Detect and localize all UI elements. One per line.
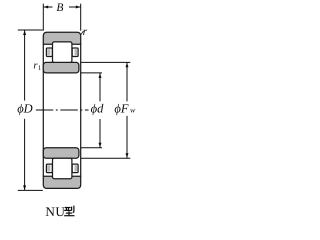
outer ring lower section [43,176,80,188]
phiD extension line bottom [18,189,43,191]
svg-text:B: B [56,2,63,14]
wire: left side-face line of bearing [42,44,44,177]
svg-text:r: r [83,26,88,38]
B dimension extension line right [80,4,82,31]
phid dimension line upper segment with up arrow [99,73,101,101]
roller upper [53,42,72,63]
phiFw extension line top [81,61,131,63]
inner ring lower section [43,148,79,159]
svg-text:NU: NU [45,204,65,219]
svg-text:1: 1 [38,64,42,72]
axis center line (dash-dot) [36,109,89,111]
B dimension extension line left [42,4,44,31]
wire: right side-face line of bearing [80,44,82,177]
cage upper-right [72,48,78,57]
cage lower-right [72,164,78,173]
B dimension line right segment with arrow [69,6,80,8]
svg-text:ϕD: ϕD [17,101,33,115]
cage lower-left [46,164,52,173]
svg-text:ϕd: ϕd [91,101,104,115]
phiFw extension line bottom [81,157,131,159]
leader for r [81,31,84,35]
phiD extension line top [18,29,43,31]
inner ring upper section [43,62,79,73]
outer ring upper section [43,32,80,44]
phid extension line bottom [81,147,102,149]
phiD dimension line lower segment with down arrow [24,119,26,190]
cage upper-left [46,48,52,57]
phiFw dimension line upper segment with up arrow [126,63,128,102]
roller lower [53,158,72,179]
label kanji 'kata' (type) drawn as strokes [64,206,74,216]
B dimension line left segment with arrow [44,6,53,8]
phid extension line top [81,72,102,74]
phiD dimension line upper segment with up arrow [24,30,26,100]
phiFw dimension line lower segment with down arrow [126,116,128,158]
svg-text:ϕF: ϕF [114,101,128,115]
svg-text:w: w [130,105,136,114]
phid dimension line lower segment with down arrow [99,119,101,148]
